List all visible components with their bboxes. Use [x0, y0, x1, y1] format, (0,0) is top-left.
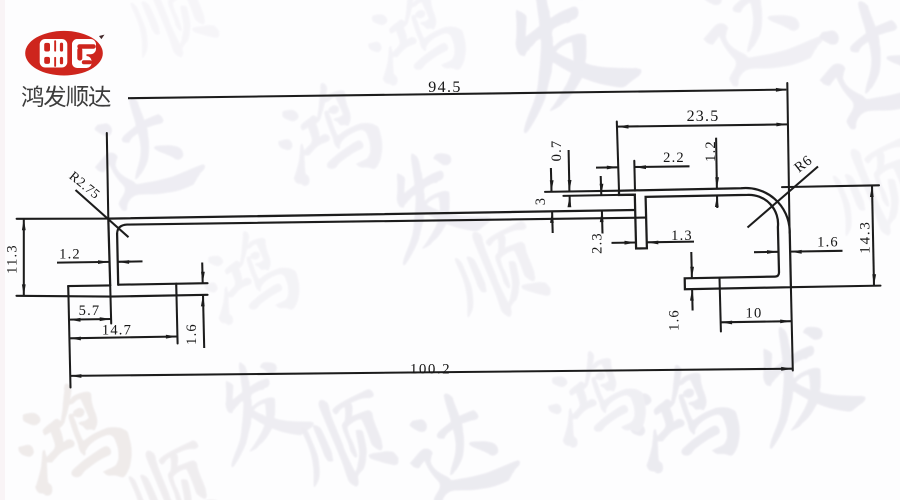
dim 100.2 [70, 369, 793, 376]
svg-text:14.3: 14.3 [858, 220, 874, 253]
dim 1.6 bottom wall [690, 252, 693, 278]
dim 14.3 [872, 186, 874, 286]
logo: red ellipse with HF [25, 31, 104, 76]
dim 1.3 [612, 241, 637, 243]
extension line 23.5 left [617, 122, 619, 191]
extension line 14.3 bottom [791, 286, 881, 288]
svg-text:10: 10 [746, 306, 763, 322]
extension line block right down [791, 287, 793, 370]
svg-text:100.2: 100.2 [410, 362, 451, 378]
svg-text:3: 3 [533, 197, 549, 205]
stem left edge [108, 219, 110, 286]
svg-text:23.5: 23.5 [687, 108, 720, 125]
wall bottom edge with fillet R2.75 [117, 218, 646, 234]
svg-text:1.2: 1.2 [59, 247, 81, 263]
svg-text:94.5: 94.5 [428, 79, 462, 96]
extension line left of lip top [545, 191, 619, 192]
extension line 10 left [720, 278, 721, 332]
dim 0.7 [568, 150, 571, 192]
dim 1.2 block top [715, 138, 718, 189]
foot top edge left [68, 284, 110, 287]
foot right edge [175, 284, 177, 296]
svg-text:0.7: 0.7 [549, 140, 565, 162]
extension line lip bottom left [563, 195, 635, 196]
foot left edge [67, 286, 69, 297]
dim 1.6 right wall [754, 251, 779, 253]
svg-text:14.7: 14.7 [102, 322, 132, 338]
logo text hong fa shun da [22, 85, 111, 107]
svg-text:2.2: 2.2 [663, 150, 685, 166]
svg-text:5.7: 5.7 [79, 303, 101, 319]
foot bottom edge with extensions [17, 295, 208, 297]
dim 11.3 [23, 219, 25, 296]
extension line right edge above block [787, 83, 789, 233]
extension line foot-left down [69, 297, 71, 387]
leader R2.75 [76, 190, 129, 237]
extension line above leg outer [633, 161, 636, 191]
dim 3 [550, 168, 553, 192]
dim 5.7 [69, 318, 111, 321]
extension line foot-right down [177, 296, 178, 344]
right block outline [619, 188, 791, 289]
svg-text:1.3: 1.3 [671, 228, 693, 244]
dim 10 [721, 321, 792, 322]
svg-text:2.3: 2.3 [590, 232, 606, 254]
leader R6 [748, 167, 819, 228]
svg-text:1.6: 1.6 [184, 323, 200, 345]
dim 2.3 [600, 176, 603, 195]
svg-text:1.6: 1.6 [817, 234, 839, 250]
svg-text:1.2: 1.2 [703, 140, 719, 162]
svg-text:11.3: 11.3 [5, 244, 21, 274]
dim 23.5 [617, 124, 788, 126]
svg-text:1.6: 1.6 [667, 309, 683, 331]
wall top edge [108, 210, 635, 219]
extension line 11.3 top [17, 218, 109, 220]
dim 2.2 [596, 166, 618, 168]
extension line stem-left down [110, 285, 111, 323]
stem right edge [117, 234, 118, 285]
extension line 14.3 top [782, 185, 879, 187]
dim 14.7 [69, 337, 177, 339]
foot top edge right + extension [118, 283, 207, 285]
dim 94.5 [128, 90, 786, 99]
dim 1.2 stem [57, 261, 110, 264]
dim 1.6 foot [201, 263, 204, 284]
extension line top-left vertical [107, 133, 109, 219]
